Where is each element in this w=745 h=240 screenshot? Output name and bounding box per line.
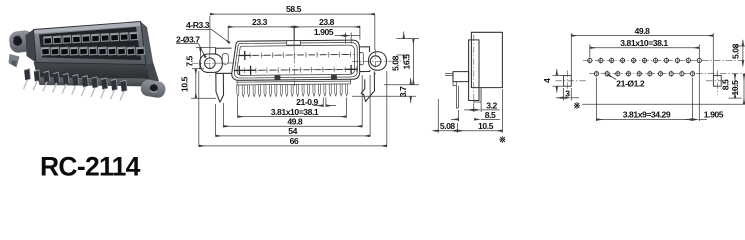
svg-text:7.5: 7.5 <box>184 56 194 67</box>
vertical centerline <box>293 27 295 44</box>
svg-text:16.5: 16.5 <box>401 54 411 70</box>
footprint dim 5.08 <box>731 40 745 66</box>
svg-text:10.5: 10.5 <box>730 80 740 96</box>
svg-text:5.08: 5.08 <box>391 55 401 71</box>
footprint base line <box>582 103 745 105</box>
photo right lower corner <box>146 62 159 84</box>
front shell outer <box>231 40 359 80</box>
footprint dim 1.905 <box>685 64 724 122</box>
dim 54 <box>216 75 371 136</box>
label 21-diam1.2 <box>608 75 645 89</box>
svg-text:10.5: 10.5 <box>179 76 189 92</box>
dim 49.8 front <box>223 75 362 127</box>
side view ear tab <box>453 72 469 82</box>
connector photo <box>8 22 166 101</box>
svg-text:8.5: 8.5 <box>485 110 496 120</box>
side dim 3.2 <box>464 89 500 112</box>
svg-text:49.8: 49.8 <box>635 26 651 36</box>
flange right ear boss <box>368 52 386 71</box>
footprint dim 4 <box>542 69 565 93</box>
photo left boardlock foot <box>9 54 20 68</box>
svg-text:66: 66 <box>290 136 299 146</box>
front bottom tab right <box>331 75 337 79</box>
molded base <box>237 79 350 85</box>
svg-text:1.905: 1.905 <box>704 110 724 120</box>
photo face top highlight <box>34 22 142 34</box>
photo body front wall <box>34 62 152 79</box>
side view shell centerline <box>473 35 475 106</box>
svg-text:3.7: 3.7 <box>398 86 408 97</box>
left ear hole <box>204 58 215 69</box>
front view pins <box>237 84 348 97</box>
dim 10.5 <box>179 69 216 99</box>
dim 1.905 <box>314 27 360 44</box>
svg-text:※: ※ <box>573 100 580 110</box>
dim 3.7 <box>352 78 416 103</box>
svg-text:3: 3 <box>565 89 570 99</box>
front shell recess <box>237 45 355 75</box>
front view geometry <box>192 26 402 103</box>
side view ear edge line <box>445 73 453 75</box>
svg-text:21-0.9: 21-0.9 <box>296 97 318 107</box>
flange left slot <box>222 53 228 64</box>
svg-text:21-Ø1.2: 21-Ø1.2 <box>616 78 645 88</box>
front shell mid outline <box>234 42 357 78</box>
left boardlock prong <box>216 73 224 102</box>
svg-text:10.5: 10.5 <box>478 121 494 131</box>
footprint dim 10.5 <box>730 74 744 105</box>
flange right tab <box>360 52 364 65</box>
side dim 8.5 <box>451 110 500 122</box>
svg-text:58.5: 58.5 <box>286 4 302 14</box>
svg-text:3.81x10=38.1: 3.81x10=38.1 <box>271 107 319 117</box>
footprint dim 49.8 <box>571 26 713 75</box>
photo contact holes <box>41 32 144 55</box>
photo body left side <box>26 30 37 64</box>
contact slots bottom row <box>236 66 356 73</box>
contact row centerlines <box>237 54 356 55</box>
svg-text:23.8: 23.8 <box>319 17 335 27</box>
footprint bottom hole row <box>594 71 694 77</box>
footprint dim 3.81x10=38.1 <box>590 38 700 58</box>
front bottom tab left <box>275 75 281 79</box>
footprint left square hole <box>556 71 587 96</box>
footprint right square hole <box>706 71 730 96</box>
photo mating face <box>34 22 147 65</box>
svg-text:49.8: 49.8 <box>287 117 303 127</box>
dim 16.5 <box>384 39 419 85</box>
svg-text:3.81x9=34.29: 3.81x9=34.29 <box>623 110 671 120</box>
photo face recess <box>39 27 141 60</box>
photo pins <box>24 69 128 101</box>
dim 66 <box>199 71 387 147</box>
front top tab <box>287 41 301 46</box>
side dim 5.08 and 10.5 <box>433 89 502 133</box>
dim 5.08 front <box>391 32 410 71</box>
photo left ear <box>8 29 34 53</box>
svg-text:8.5: 8.5 <box>721 79 731 90</box>
ear centerlines <box>192 62 237 64</box>
contact slots top row <box>242 52 351 59</box>
svg-text:4-R3.3: 4-R3.3 <box>186 20 210 30</box>
dim 23.8 <box>294 17 360 40</box>
svg-text:4: 4 <box>542 78 552 83</box>
svg-text:54: 54 <box>288 126 297 136</box>
dim 23.3 <box>228 17 294 43</box>
svg-text:RC-2114: RC-2114 <box>40 152 141 182</box>
side view tab foot <box>453 82 456 86</box>
side view shell rim <box>469 40 479 101</box>
right ear hole <box>370 56 381 67</box>
right boardlock prong <box>361 72 375 102</box>
dim 21-0.9 <box>296 97 336 107</box>
svg-text:1.905: 1.905 <box>314 27 334 37</box>
footprint hole row centerlines <box>583 59 745 61</box>
label 2-diam3.7 <box>176 34 206 57</box>
dim 7.5 <box>184 48 216 69</box>
footprint top hole row <box>588 57 702 63</box>
side view bottom stub <box>474 88 481 102</box>
side view body <box>471 32 502 87</box>
svg-text:23.3: 23.3 <box>252 17 268 27</box>
photo body right wall <box>141 22 154 65</box>
svg-text:※: ※ <box>499 135 506 145</box>
flange left ear boss <box>200 54 223 73</box>
side view front pin <box>456 86 458 108</box>
svg-text:3.81x10=38.1: 3.81x10=38.1 <box>620 38 668 48</box>
svg-text:5.08: 5.08 <box>731 43 741 59</box>
photo right ear <box>140 79 167 99</box>
footprint dim 3 <box>556 88 579 101</box>
dim 3.81x10=38.1 <box>238 98 347 118</box>
svg-text:3.2: 3.2 <box>486 100 497 110</box>
footprint dim 3.81x9=34.29 <box>596 78 692 122</box>
svg-text:5.08: 5.08 <box>440 121 456 131</box>
label 4-R3.3 <box>186 20 230 43</box>
contact cross markers <box>234 50 357 75</box>
dim 58.5 <box>210 4 375 52</box>
photo flange band <box>38 78 153 87</box>
svg-text:2-Ø3.7: 2-Ø3.7 <box>176 34 200 44</box>
footprint dim 8.5 <box>721 74 742 98</box>
